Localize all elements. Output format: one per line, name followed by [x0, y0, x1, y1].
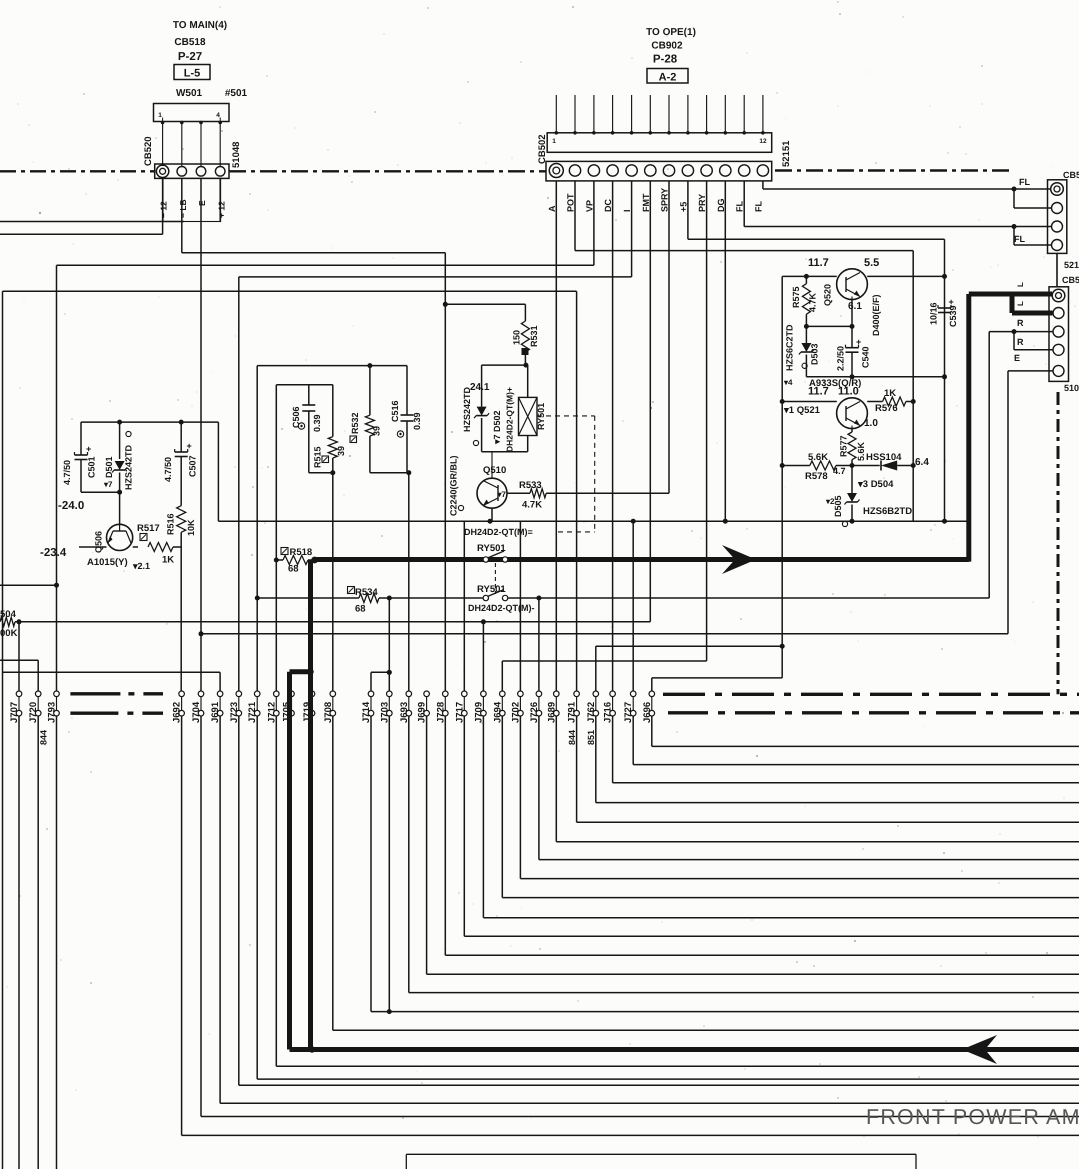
- svg-text:4.7K: 4.7K: [522, 500, 542, 511]
- wire -LB pin down: [181, 178, 183, 252]
- resistor R504: [0, 609, 650, 639]
- resistor R534: [255, 587, 392, 615]
- svg-text:L: L: [1016, 301, 1025, 306]
- resistor R575: [791, 276, 818, 329]
- svg-text:4.7/50: 4.7/50: [163, 457, 173, 482]
- svg-text:CB518: CB518: [174, 37, 206, 48]
- wire mid rail: [806, 374, 944, 379]
- connector FL housing: [1048, 180, 1067, 254]
- text Q520: [823, 284, 833, 306]
- svg-text:HSS104: HSS104: [866, 452, 902, 463]
- svg-text:POT: POT: [566, 193, 576, 212]
- wire J693 riser: [408, 473, 410, 692]
- svg-text:Q506: Q506: [94, 531, 104, 553]
- svg-text:▾1 Q521: ▾1 Q521: [783, 405, 821, 416]
- svg-text:1.0: 1.0: [864, 418, 878, 429]
- wire E line up: [1008, 371, 1053, 634]
- wire h365: [257, 363, 407, 368]
- text Q521: [783, 405, 821, 416]
- CB502 pin labels: [547, 188, 764, 212]
- label FL lower: [1014, 234, 1025, 244]
- svg-text:-24.0: -24.0: [58, 500, 84, 512]
- svg-text:11.7: 11.7: [808, 257, 829, 269]
- dashed linkage: [495, 416, 594, 594]
- wire J691 fan: [220, 716, 1079, 1103]
- wire left edge vertical: [2, 291, 4, 1169]
- connector SPK circles: [1053, 308, 1064, 377]
- wire y585 to J793: [0, 584, 57, 586]
- wire A down: [555, 181, 557, 691]
- connector W501 housing: [154, 104, 230, 122]
- svg-text:A: A: [547, 205, 557, 212]
- label L1: [1016, 282, 1025, 287]
- svg-text:− 12: − 12: [159, 201, 169, 218]
- pin label E: [197, 200, 207, 206]
- svg-text:844: 844: [39, 730, 49, 745]
- wire Q506 emitter stub: [40, 547, 107, 559]
- wire J721 riser: [256, 598, 258, 691]
- wire block left vertical: [780, 276, 785, 678]
- svg-text:39: 39: [372, 426, 382, 436]
- wire y660 to J720: [0, 660, 38, 691]
- connector CB502 pin 1 circle: [549, 164, 563, 178]
- svg-text:▾2.1: ▾2.1: [132, 561, 150, 571]
- wire x944 down: [942, 239, 947, 521]
- svg-text:D501: D501: [104, 456, 114, 478]
- jumper J714: [361, 691, 374, 723]
- svg-text:R516: R516: [166, 513, 176, 535]
- svg-text:150: 150: [512, 330, 522, 345]
- wire contact line to R: [389, 596, 989, 601]
- jumper J694: [492, 691, 505, 723]
- svg-text:1K: 1K: [884, 388, 896, 399]
- svg-text:HZS6B2TD: HZS6B2TD: [863, 506, 912, 517]
- label 844 left: [39, 730, 49, 745]
- svg-text:HZS242TD: HZS242TD: [124, 444, 134, 490]
- wire J699 fan: [427, 716, 1079, 974]
- chain line right of CB502: [775, 169, 1012, 171]
- text 51048: [231, 142, 242, 168]
- svg-text:J719: J719: [302, 702, 313, 723]
- wire J714 fan: [371, 716, 1079, 1012]
- zener D503: [783, 324, 820, 387]
- svg-text:68: 68: [355, 604, 366, 615]
- svg-text:▾7 D502: ▾7 D502: [492, 410, 502, 445]
- svg-text:A1015(Y): A1015(Y): [87, 557, 128, 568]
- wire J707 riser: [18, 622, 20, 691]
- svg-text:R576: R576: [875, 403, 898, 414]
- wire node to C501: [81, 490, 122, 495]
- svg-text:+: +: [856, 337, 861, 347]
- wire VP down: [57, 181, 594, 265]
- svg-text:CB5: CB5: [1062, 275, 1079, 285]
- jumper J707: [9, 691, 22, 723]
- jumper J791: [567, 691, 580, 723]
- jumper J703: [379, 691, 392, 723]
- connector CB502 housing: [547, 133, 772, 153]
- svg-text:C501: C501: [87, 456, 97, 478]
- text #501: [225, 88, 248, 99]
- svg-text:D400(E/F): D400(E/F): [871, 294, 881, 336]
- jumper J708: [323, 691, 336, 723]
- svg-text:4: 4: [216, 112, 220, 119]
- capacitor C506: [291, 385, 322, 473]
- svg-text:51048: 51048: [231, 142, 242, 168]
- text D400: [871, 294, 881, 336]
- label RY501 contact1: [477, 543, 506, 554]
- pin label box: [163, 178, 221, 221]
- svg-text:R577: R577: [839, 435, 849, 457]
- pin label -LB: [178, 199, 188, 218]
- connector CB520 pin 2 circle: [177, 167, 187, 177]
- svg-text:5.6K: 5.6K: [808, 452, 828, 463]
- bus arrow right: [722, 545, 756, 574]
- wire J692 riser: [180, 547, 182, 691]
- wire J703 down join: [387, 716, 392, 1014]
- wire J726 fan: [539, 716, 1079, 860]
- jumper J689: [546, 691, 559, 723]
- svg-text:▾7: ▾7: [103, 480, 113, 489]
- jumper J696: [642, 691, 655, 723]
- svg-text:6.1: 6.1: [848, 301, 862, 312]
- connector CB520 housing: [155, 164, 229, 178]
- svg-text:Q510: Q510: [483, 465, 506, 476]
- svg-text:C2240(GR/BL): C2240(GR/BL): [449, 455, 459, 516]
- wire J728 fan: [445, 716, 1079, 955]
- svg-text:+: +: [187, 441, 192, 451]
- svg-text:RY501: RY501: [477, 584, 506, 595]
- jumper J726: [529, 691, 542, 723]
- text TO MAIN(4) header: [173, 20, 227, 63]
- svg-text:R575: R575: [791, 286, 801, 308]
- wire y291 line: [3, 291, 577, 691]
- wire -12 pin: [0, 178, 163, 234]
- jumper J704: [191, 691, 204, 723]
- wire E pin down long: [199, 178, 204, 691]
- text CB5 upper right: [1063, 170, 1079, 180]
- wire pair1 bottom: [309, 470, 336, 475]
- chain jumper row top left: [70, 692, 163, 695]
- thick bus bottom horizontal: [290, 1046, 1079, 1052]
- svg-text:D505: D505: [833, 495, 843, 517]
- svg-text:HZS242TD: HZS242TD: [462, 386, 472, 432]
- svg-text:68: 68: [288, 564, 299, 575]
- wire node to D502: [482, 365, 526, 407]
- svg-text:Q520: Q520: [823, 284, 833, 306]
- wire POT down: [575, 181, 913, 251]
- jumper J691: [210, 691, 223, 723]
- wire Q510 emitter: [488, 508, 493, 524]
- wire J707 down: [18, 716, 20, 1169]
- wire DC down: [612, 181, 614, 691]
- svg-text:851: 851: [586, 730, 596, 745]
- wire J708 fan: [333, 716, 1079, 1030]
- wire J693 fan: [409, 716, 1079, 993]
- wire J702 riser: [519, 521, 521, 691]
- wire I down: [239, 181, 632, 277]
- wire R line up: [989, 329, 1052, 598]
- chain line left: [0, 170, 155, 172]
- text FRONT POWER AMP: [866, 1105, 1079, 1129]
- svg-text:P-28: P-28: [653, 54, 678, 66]
- wire J704 fan: [201, 716, 1079, 1117]
- connector SPK circle1: [1052, 289, 1065, 302]
- svg-text:DG: DG: [716, 199, 726, 213]
- grid ref box A-2: [647, 69, 688, 84]
- svg-text:-23.4: -23.4: [40, 547, 67, 559]
- resistor R576: [864, 388, 913, 429]
- bus arrow left bottom: [962, 1035, 997, 1064]
- label DH24D2 contact1: [464, 527, 533, 537]
- svg-text:FL: FL: [753, 201, 763, 212]
- svg-text:+ 12: + 12: [217, 201, 227, 218]
- svg-text:FRONT POWER AMP: FRONT POWER AMP: [866, 1105, 1079, 1129]
- wire J694 riser: [501, 661, 503, 691]
- svg-text:+: +: [86, 444, 91, 454]
- jumper J723: [229, 691, 242, 723]
- text volt 11.0: [838, 386, 859, 398]
- wire pair2 bottom: [370, 470, 411, 475]
- thick bus horizontal: [315, 557, 969, 562]
- svg-text:E: E: [197, 200, 207, 206]
- svg-text:J705: J705: [282, 701, 293, 723]
- transistor Q521: [837, 398, 868, 429]
- thick bus branch left: [290, 669, 314, 1050]
- svg-text:R: R: [1017, 337, 1024, 347]
- resistor R517: [133, 523, 182, 566]
- wire base rail Q520: [782, 274, 837, 279]
- wire top rail Q506: [81, 420, 218, 425]
- svg-text:C540: C540: [861, 346, 871, 368]
- wire J793 down: [56, 716, 58, 1169]
- svg-text:CB520: CB520: [143, 136, 154, 166]
- wire J702 fan: [520, 716, 1079, 879]
- label R2: [1017, 337, 1024, 347]
- resistor R515: [313, 385, 347, 473]
- svg-text:C507: C507: [188, 455, 198, 477]
- svg-text:DH24D2-QT(M)+: DH24D2-QT(M)+: [505, 387, 515, 452]
- relay coil RY501: [505, 365, 547, 452]
- jumper J692: [172, 691, 185, 723]
- svg-text:52151: 52151: [781, 140, 792, 167]
- jumper J793: [47, 691, 60, 723]
- zener D501: [103, 422, 134, 524]
- svg-text:10K: 10K: [186, 519, 196, 536]
- wire PRY down: [502, 181, 706, 661]
- svg-text:SPRY: SPRY: [660, 188, 670, 212]
- connector CB502 top pins: [555, 95, 765, 135]
- svg-text:12: 12: [759, 138, 767, 145]
- capacitor C540: [836, 337, 871, 377]
- connector FL circle1: [1051, 183, 1064, 196]
- svg-text:#501: #501: [225, 88, 248, 99]
- svg-text:R531: R531: [529, 325, 539, 347]
- wire J708 riser: [332, 473, 334, 692]
- wire +5 down: [688, 181, 945, 239]
- jumper J709: [473, 691, 486, 723]
- wire SPRY down: [668, 181, 670, 493]
- svg-text:C506: C506: [291, 406, 301, 428]
- text CB5 lower right: [1062, 275, 1079, 285]
- wire J692 fan: [182, 716, 1079, 1135]
- wire FL branch c4: [1014, 227, 1051, 246]
- wire FL pin12: [763, 181, 1051, 192]
- svg-text:C516: C516: [390, 400, 400, 422]
- label E spk: [1014, 353, 1020, 363]
- svg-text:▾3 D504: ▾3 D504: [857, 479, 894, 490]
- svg-text:▾7: ▾7: [497, 490, 507, 499]
- wire J689 fan: [556, 716, 1079, 842]
- connector FL circle3: [1052, 221, 1063, 232]
- svg-text:− LB: − LB: [178, 199, 188, 218]
- pin label -12: [159, 201, 169, 218]
- svg-text:0.39: 0.39: [312, 414, 322, 432]
- text W501: [176, 88, 203, 99]
- resistor R577: [839, 429, 867, 468]
- text TO OPE(1) header: [646, 27, 696, 66]
- jumper J727: [623, 691, 636, 723]
- svg-text:10/16: 10/16: [929, 302, 939, 325]
- wire +12 pin stub: [219, 178, 221, 221]
- wire main rail: [218, 519, 968, 524]
- wire D502 to coil bottom: [482, 451, 528, 453]
- svg-text:CB502: CB502: [537, 134, 548, 164]
- jumper J721: [247, 691, 260, 723]
- wire I to J723: [238, 277, 240, 691]
- svg-text:DH24D2-QT(M)-: DH24D2-QT(M)-: [468, 603, 535, 613]
- svg-text:FL: FL: [1019, 177, 1030, 187]
- connector CB502 circle row box: [546, 161, 772, 181]
- chain jumper row bottom left: [70, 712, 163, 715]
- svg-text:6.4: 6.4: [915, 457, 929, 468]
- resistor R578: [782, 452, 852, 482]
- svg-text:FL: FL: [735, 201, 745, 212]
- jumper J716: [603, 691, 616, 723]
- jumper J712: [266, 691, 279, 723]
- jumper J693: [399, 691, 412, 723]
- text A1015: [87, 557, 150, 571]
- connector W501 pins: [161, 121, 222, 166]
- wire J714 J703 riser: [371, 598, 392, 691]
- wire J762 line: [596, 646, 782, 691]
- jumper J728: [435, 691, 448, 723]
- wire J696 fan: [652, 716, 1079, 746]
- wire FMT down: [649, 181, 651, 622]
- wire v276 to R518: [275, 385, 277, 560]
- jumper J702: [510, 691, 523, 723]
- label RY501 contact2: [477, 584, 506, 595]
- resistor R532: [350, 366, 382, 473]
- text 52151: [781, 140, 792, 167]
- chain jumper row bottom right: [668, 711, 1079, 714]
- wire J694 fan: [502, 716, 1079, 898]
- pin label +12: [217, 201, 227, 218]
- wire J721 fan: [257, 716, 1079, 1079]
- svg-text:PRY: PRY: [697, 194, 707, 212]
- svg-text:1: 1: [158, 112, 162, 119]
- capacitor C539: [929, 297, 959, 327]
- wire J712 riser: [275, 560, 277, 691]
- wire VP to J793: [54, 265, 59, 691]
- diode D504: [852, 452, 929, 490]
- text 521: [1064, 260, 1079, 270]
- svg-text:VP: VP: [584, 200, 594, 212]
- jumper J720: [28, 691, 41, 723]
- chain line mid: [229, 170, 546, 172]
- svg-text:C539: C539: [948, 305, 958, 327]
- wire J723 fan: [239, 716, 1079, 1085]
- wire J726 riser: [538, 598, 540, 691]
- wire J727 riser: [632, 521, 634, 691]
- text 6.1: [848, 301, 862, 312]
- svg-text:R: R: [1017, 318, 1024, 328]
- wire DG down: [724, 181, 726, 521]
- text volt 11.7 Q520: [808, 257, 829, 269]
- svg-text:DC: DC: [603, 199, 613, 212]
- thick bus vertical 1: [308, 560, 313, 1050]
- svg-text:1: 1: [552, 138, 556, 145]
- svg-text:2.2/50: 2.2/50: [836, 346, 846, 371]
- wire h384: [276, 384, 333, 386]
- text -24.0: [58, 500, 84, 512]
- label FL upper: [1019, 177, 1030, 187]
- svg-text:R518: R518: [290, 547, 313, 558]
- connector CB520 pin 1 circle: [156, 165, 168, 177]
- svg-text:1K: 1K: [162, 555, 174, 566]
- svg-text:TO MAIN(4): TO MAIN(4): [173, 20, 227, 31]
- text CB520: [143, 136, 154, 166]
- svg-text:24.1: 24.1: [470, 382, 490, 393]
- text 510: [1064, 383, 1079, 393]
- svg-text:CB902: CB902: [651, 41, 683, 52]
- svg-text:5.6K: 5.6K: [856, 441, 866, 461]
- svg-text:L: L: [1016, 282, 1025, 287]
- label 844 right: [567, 730, 577, 745]
- wire between connectors: [1056, 253, 1058, 286]
- svg-text:E: E: [1014, 353, 1020, 363]
- svg-text:DH24D2-QT(M)=: DH24D2-QT(M)=: [464, 527, 533, 537]
- svg-text:TO OPE(1): TO OPE(1): [646, 27, 696, 38]
- svg-text:D503: D503: [810, 343, 820, 365]
- wire J720 down: [37, 716, 39, 1169]
- text CB502: [537, 134, 548, 164]
- svg-text:R533: R533: [519, 480, 542, 491]
- wire -LB to R531 horizontal: [182, 252, 446, 254]
- label 851: [586, 730, 596, 745]
- jumper J717: [454, 691, 467, 723]
- jumper J719: [302, 691, 315, 723]
- wire J717 fan: [464, 716, 1079, 936]
- wire J709 fan: [483, 716, 1079, 918]
- wire x218 down to rail: [217, 422, 219, 521]
- connector CB520 pin 4 circle: [215, 167, 225, 177]
- grid ref box L-5: [174, 65, 210, 80]
- text C2240: [449, 455, 464, 516]
- svg-text:I: I: [622, 209, 632, 212]
- wire branch to R531: [445, 304, 525, 321]
- relay contact 1: [483, 551, 508, 562]
- svg-text:R515: R515: [313, 446, 323, 468]
- wire v257 down: [256, 366, 258, 598]
- jumper J762: [586, 691, 599, 723]
- wire Q521 base: [782, 401, 837, 403]
- svg-text:A-2: A-2: [659, 72, 677, 84]
- relay contact 2: [483, 590, 508, 601]
- bottom block box: [406, 1154, 916, 1169]
- wire vertical x445 to J728: [443, 253, 448, 691]
- svg-text:HZS6C2TD: HZS6C2TD: [785, 324, 795, 371]
- chain vertical right: [1057, 392, 1060, 694]
